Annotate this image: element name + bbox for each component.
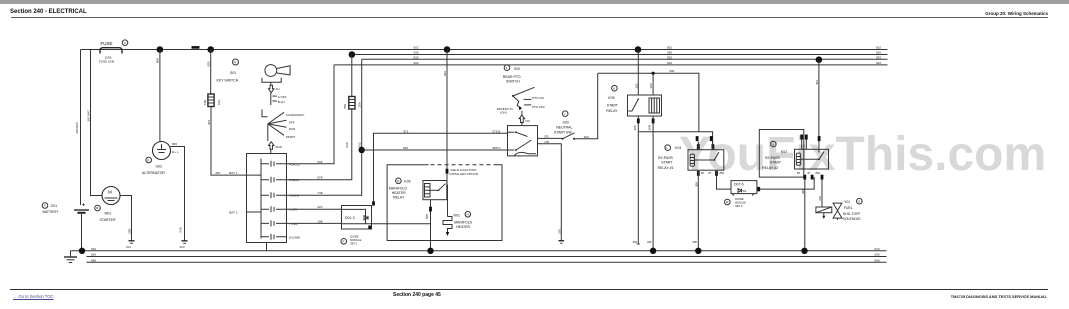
svg-text:START: START	[607, 103, 619, 107]
svg-text:D01-3: D01-3	[345, 216, 355, 220]
svg-text:040: 040	[91, 258, 96, 262]
svg-text:032: 032	[403, 146, 408, 150]
svg-text:N: N	[772, 142, 774, 146]
wire 300 top run	[598, 69, 699, 132]
ground terminal SC1	[126, 241, 135, 249]
key connector BAT2 stub	[229, 211, 261, 215]
svg-text:BATTERY: BATTERY	[43, 210, 59, 214]
label R01 H MANIFOLD HEATER	[454, 212, 473, 229]
node K06-bus	[427, 248, 433, 254]
svg-text:600 BAT: 600 BAT	[75, 122, 79, 134]
wire NB row to diode module	[287, 222, 342, 224]
splice mark on bus line 1	[192, 46, 200, 49]
rear PTO switch connector box	[508, 126, 538, 156]
svg-text:REAR PTO: REAR PTO	[503, 75, 521, 79]
svg-text:F05: F05	[203, 99, 207, 105]
diode module D07-6 box	[731, 181, 757, 196]
svg-text:+: +	[82, 203, 85, 209]
starter M01	[102, 187, 120, 205]
key switch contacts A OFF / B AU	[271, 82, 287, 105]
label D K06 MANIFOLD HEATER RELAY	[389, 178, 411, 199]
wire battery feed left	[80, 50, 82, 206]
svg-text:Y01: Y01	[844, 200, 850, 204]
svg-text:27B: 27B	[544, 140, 549, 144]
svg-text:85A: 85A	[720, 171, 725, 175]
node K01-bus	[695, 248, 701, 254]
relay K02	[795, 149, 829, 169]
wire 320 S03 riser	[574, 73, 598, 139]
svg-text:370: 370	[557, 229, 561, 234]
wire key switch feed	[207, 50, 211, 95]
svg-text:M01: M01	[105, 212, 112, 216]
wire starter feed	[91, 50, 103, 196]
svg-text:87: 87	[709, 171, 712, 175]
svg-text:032: 032	[414, 55, 419, 59]
svg-text:HEATER: HEATER	[456, 225, 470, 229]
wire D07-6 to K02	[757, 177, 814, 191]
svg-text:032: 032	[876, 55, 881, 59]
svg-text:85A: 85A	[816, 171, 821, 175]
svg-text:E: E	[234, 60, 236, 64]
svg-text:ON: ON	[525, 119, 530, 123]
svg-text:306: 306	[649, 83, 653, 88]
K02 coil top pins	[800, 135, 807, 150]
svg-text:D4: D4	[743, 189, 747, 193]
svg-text:032: 032	[317, 160, 322, 164]
svg-text:002: 002	[443, 71, 447, 76]
svg-text:D+ L: D+ L	[172, 150, 179, 154]
svg-text:INSTALLED OPTION: INSTALLED OPTION	[450, 172, 478, 176]
wire bus1 to K05 contact	[634, 50, 638, 96]
svg-text:678: 678	[317, 176, 322, 180]
svg-text:SET A: SET A	[735, 204, 743, 208]
wire K02 to bottom bus	[801, 180, 805, 251]
wire bus top line 2 (030)	[352, 54, 888, 56]
svg-text:86: 86	[701, 171, 704, 175]
wire diode module to K06 coil return	[372, 223, 431, 225]
svg-text:M: M	[108, 190, 112, 195]
svg-text:PTO ON: PTO ON	[532, 96, 543, 100]
wire label 600 BAT	[75, 122, 79, 134]
svg-text:FUSE: FUSE	[101, 41, 113, 46]
svg-text:S02: S02	[514, 67, 520, 71]
svg-text:32B: 32B	[128, 229, 132, 234]
svg-text:005: 005	[207, 61, 211, 66]
svg-text:RELAY: RELAY	[606, 109, 618, 113]
wire bus bottom line 3 (040)	[87, 261, 887, 263]
svg-text:DIODE: DIODE	[350, 234, 358, 238]
heater R01 element	[443, 185, 452, 237]
K01 bottom pins	[697, 171, 724, 176]
relay K05	[628, 95, 662, 116]
svg-text:MANIFOLD: MANIFOLD	[454, 221, 473, 225]
key connector contact row 1 ACC	[261, 160, 323, 167]
node K02-bus	[801, 248, 807, 254]
svg-text:SWITCH: SWITCH	[506, 80, 520, 84]
svg-text:FUSE LINK: FUSE LINK	[99, 59, 115, 63]
svg-text:START: START	[286, 135, 296, 139]
wire bus top line 1 (002)	[81, 49, 888, 51]
bottom bus labels left	[91, 247, 96, 263]
bus labels right end	[876, 46, 881, 66]
svg-text:030: 030	[667, 51, 672, 55]
label F S02 REAR PTO SWITCH	[503, 65, 521, 84]
svg-text:032: 032	[358, 142, 362, 147]
wire K02 to fuel solenoid	[818, 180, 822, 208]
wire K06 coil to bottom bus	[425, 200, 432, 251]
wire alternator feed	[156, 50, 160, 142]
svg-text:K02: K02	[781, 150, 787, 154]
K06 manifold heater relay enclosure	[387, 165, 502, 241]
svg-text:320: 320	[317, 205, 322, 209]
wire K01 to bottom bus	[692, 170, 698, 251]
svg-text:381 BAT: 381 BAT	[87, 110, 91, 122]
svg-text:30B: 30B	[692, 240, 697, 244]
svg-text:030: 030	[876, 51, 881, 55]
wire fuse 705 to bus line 2 node	[351, 55, 353, 97]
label K K05 START RELAY	[606, 85, 619, 113]
node bus1-K05	[635, 46, 642, 53]
svg-text:508: 508	[425, 214, 429, 219]
svg-text:ACCESSORY: ACCESSORY	[286, 113, 305, 117]
svg-text:302: 302	[414, 61, 419, 65]
svg-text:302: 302	[667, 61, 672, 65]
svg-text:320: 320	[584, 135, 589, 139]
svg-text:308: 308	[801, 189, 805, 194]
svg-text:MANIFOLD: MANIFOLD	[389, 187, 408, 191]
svg-text:318: 318	[818, 196, 822, 201]
key switch position arrow down	[269, 85, 280, 92]
wire K05 coil return to bus	[647, 132, 653, 251]
K02 enclosure box	[759, 130, 804, 178]
diode module D01-3 box	[342, 201, 375, 229]
svg-text:030: 030	[414, 51, 419, 55]
node bus1-alternator	[157, 46, 164, 53]
svg-text:START SW: START SW	[554, 130, 572, 134]
wire ST row to diode module	[287, 208, 342, 210]
wire K05 lower link	[638, 132, 712, 150]
relay K01	[688, 142, 724, 171]
wire fuse to key switch connector	[207, 107, 261, 176]
node K05-bus	[650, 248, 656, 254]
pins on K05 lower link	[696, 136, 713, 141]
svg-text:RELAY #1: RELAY #1	[658, 166, 674, 170]
wire bus1 to K06 contact	[443, 50, 448, 185]
svg-text:S01: S01	[230, 71, 236, 75]
svg-text:BY-PASS: BY-PASS	[658, 156, 673, 160]
svg-text:10A: 10A	[357, 102, 361, 107]
key switch S01 key symbol	[262, 65, 290, 83]
svg-text:K: K	[613, 86, 615, 90]
svg-text:KEY SWITCH: KEY SWITCH	[217, 79, 239, 83]
svg-text:K01: K01	[675, 146, 681, 150]
wire bus top line 3 (032)	[362, 58, 888, 60]
svg-text:MODULE: MODULE	[350, 238, 361, 242]
wire K05 contact to terminal	[633, 132, 640, 244]
PTO switch ON arrow	[519, 111, 530, 126]
svg-text:SHU-TOFF: SHU-TOFF	[843, 212, 861, 216]
svg-text:050: 050	[91, 253, 96, 257]
label B M01 STARTER	[95, 205, 116, 222]
svg-text:G: G	[858, 199, 861, 203]
svg-text:K05: K05	[608, 96, 614, 100]
node bus3-K02	[816, 56, 823, 63]
svg-text:002: 002	[667, 46, 672, 50]
svg-text:B: B	[96, 206, 98, 210]
svg-text:002: 002	[876, 46, 881, 50]
wire S02 to S03	[538, 135, 562, 139]
svg-text:302: 302	[876, 61, 881, 65]
label E S01 KEY SWITCH	[217, 59, 239, 83]
svg-text:RELAY: RELAY	[393, 195, 405, 199]
wire ACC row to bus line 4	[287, 65, 335, 164]
alternator G02	[153, 142, 171, 160]
key connector contact row 3 IGN	[261, 191, 323, 198]
node bus2 start	[349, 51, 356, 58]
svg-text:AU: AU	[276, 87, 280, 91]
label L K01 BY-PASS START RELAY #1	[658, 145, 682, 170]
fuse F01 fuse link 125A	[99, 40, 128, 63]
svg-text:RUN: RUN	[276, 145, 283, 149]
svg-text:308: 308	[633, 125, 637, 130]
svg-text:302: 302	[815, 80, 819, 85]
neutral start switch S03	[562, 133, 576, 140]
wire K05 coil feed	[649, 73, 653, 95]
svg-text:FUEL: FUEL	[844, 206, 853, 210]
svg-text:87: 87	[808, 171, 811, 175]
wire starter to ground SC1	[120, 196, 132, 241]
svg-text:START: START	[770, 160, 782, 164]
svg-text:575 B: 575 B	[493, 129, 501, 133]
node bus1-keyswitch	[207, 46, 214, 53]
svg-text:032: 032	[667, 55, 672, 59]
svg-text:G02: G02	[156, 165, 163, 169]
svg-text:800: 800	[172, 142, 177, 146]
wire ELC row to fuse 705	[287, 109, 352, 180]
svg-text:DIODE: DIODE	[735, 197, 743, 201]
watermark	[679, 127, 1046, 182]
svg-text:OFF: OFF	[289, 121, 295, 125]
wire bus3 to K02 contact	[815, 60, 821, 153]
svg-text:748: 748	[317, 191, 322, 195]
svg-text:START: START	[661, 161, 673, 165]
key connector contact row 4 ST	[261, 205, 323, 212]
node 300 to K05 coil	[652, 72, 655, 75]
svg-text:SET 1: SET 1	[350, 241, 358, 245]
key switch rotary positions	[262, 110, 304, 140]
label G Y01 FUEL SHUT-OFF SOLENOID	[843, 198, 863, 221]
wire bus bottom line 2 (050)	[87, 256, 887, 258]
K05 bottom pins	[633, 116, 655, 132]
svg-text:040: 040	[179, 227, 183, 232]
svg-text:G01: G01	[51, 204, 58, 208]
key connector contact row 5 NB	[261, 219, 323, 226]
wire GND row to bottom bus	[266, 243, 268, 251]
svg-text:H: H	[467, 213, 469, 217]
wire bus top line 4 (302)	[334, 64, 888, 66]
svg-text:10A: 10A	[217, 100, 221, 105]
svg-text:198: 198	[317, 219, 322, 223]
svg-text:685 C: 685 C	[493, 146, 502, 150]
bottom bus labels right	[875, 247, 880, 263]
label M DIODE MODULE SET A	[725, 197, 747, 208]
key connector contact row 2 ELC	[261, 176, 323, 183]
svg-text:SC2: SC2	[180, 245, 186, 249]
svg-text:010: 010	[875, 247, 880, 251]
svg-text:BAT 2: BAT 2	[229, 211, 237, 215]
svg-text:300: 300	[669, 69, 674, 73]
wire 871 to S02	[374, 129, 508, 205]
svg-text:C: C	[147, 158, 150, 162]
svg-text:304: 304	[207, 120, 211, 125]
node battery-bus	[79, 248, 85, 254]
label P DIODE MODULE SET 1	[341, 234, 362, 245]
svg-text:P: P	[343, 240, 345, 244]
svg-text:308: 308	[694, 182, 698, 187]
ground symbol main	[64, 251, 77, 263]
svg-text:NEUTRAL: NEUTRAL	[556, 126, 572, 130]
bus labels mid-right	[667, 46, 672, 66]
label C G02 ALTERNATOR	[142, 157, 165, 175]
relay K06	[423, 181, 447, 200]
svg-text:30A: 30A	[633, 240, 638, 244]
svg-text:K06: K06	[404, 180, 410, 184]
svg-text:PTO OFF: PTO OFF	[532, 105, 545, 109]
svg-text:M: M	[726, 200, 729, 204]
rear PTO switch S02 lever	[497, 87, 545, 114]
svg-text:306: 306	[647, 240, 652, 244]
svg-text:A OFF: A OFF	[278, 95, 287, 99]
svg-text:002: 002	[414, 46, 419, 50]
svg-text:D07-6: D07-6	[734, 183, 744, 187]
label N K02 BY-PASS START RELAY #2	[762, 141, 787, 170]
key switch run arrow up	[268, 124, 282, 154]
svg-text:RUN: RUN	[289, 127, 296, 131]
svg-text:575: 575	[544, 135, 549, 139]
svg-text:SC1: SC1	[126, 245, 132, 249]
wire bus bottom line 1 (010)	[71, 250, 887, 252]
label J S03 NEUTRAL START SW	[554, 111, 572, 134]
svg-text:8 (GND): 8 (GND)	[289, 235, 300, 239]
svg-text:S03: S03	[563, 121, 569, 125]
wire 032 to S02	[362, 146, 508, 150]
node bus1-K06	[444, 46, 451, 53]
svg-text:705: 705	[343, 104, 347, 109]
fuel shut-off solenoid Y01	[816, 203, 842, 220]
svg-text:D: D	[397, 179, 400, 183]
label A G01 BATTERY	[42, 203, 59, 214]
svg-text:RELAY #2: RELAY #2	[762, 166, 778, 170]
wire IGN row to bus line 3	[287, 59, 362, 195]
fuse F05 10A	[203, 94, 221, 107]
node 032 branch	[359, 147, 365, 153]
key switch connector S01 box	[247, 154, 287, 243]
key connector contact row 6 GND	[261, 234, 300, 240]
svg-text:J: J	[564, 112, 566, 116]
K02 bottom pins	[797, 171, 823, 180]
svg-text:800: 800	[156, 58, 160, 63]
svg-text:087: 087	[216, 171, 221, 175]
ground terminal SC2	[180, 241, 188, 249]
svg-text:(ON): (ON)	[500, 110, 507, 114]
svg-text:A: A	[44, 204, 46, 208]
svg-text:C: C	[124, 41, 127, 45]
wire S02 aux to terminal	[538, 140, 565, 243]
svg-text:030: 030	[345, 142, 349, 147]
svg-text:HEATER: HEATER	[392, 191, 406, 195]
svg-text:R01: R01	[454, 213, 460, 217]
wire K01 to diode module D07	[717, 170, 732, 189]
svg-text:30B: 30B	[648, 125, 652, 130]
svg-text:050: 050	[875, 253, 880, 257]
svg-text:BY-PASS: BY-PASS	[765, 156, 780, 160]
svg-text:871: 871	[404, 129, 409, 133]
svg-text:F: F	[506, 66, 508, 70]
fuse 705 10A	[343, 97, 361, 110]
battery G01	[74, 203, 89, 251]
svg-text:86: 86	[797, 171, 800, 175]
svg-text:040: 040	[875, 258, 880, 262]
svg-text:B AU: B AU	[278, 100, 285, 104]
svg-text:ALTERNATOR: ALTERNATOR	[142, 171, 165, 175]
svg-text:L: L	[666, 146, 668, 150]
svg-text:STARTER: STARTER	[100, 218, 116, 222]
svg-text:302: 302	[634, 83, 638, 88]
wire alternator D+ to ground SC2	[171, 142, 185, 241]
svg-text:010: 010	[91, 247, 96, 251]
bus labels mid-left	[414, 46, 419, 66]
svg-text:BAT 1: BAT 1	[229, 171, 237, 175]
svg-text:SOLENOID: SOLENOID	[843, 217, 862, 221]
svg-text:MODULE: MODULE	[735, 200, 746, 204]
wire label 381 BAT	[87, 110, 91, 122]
